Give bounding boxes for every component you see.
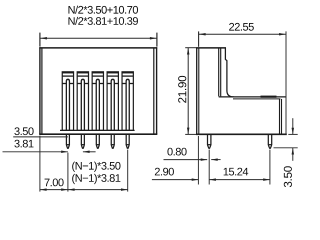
label 7.00 <box>45 179 64 187</box>
front view inner wall lines <box>42 49 154 134</box>
label 22.55 <box>229 23 254 31</box>
pin P4 front view <box>111 134 115 148</box>
terminal slot 4 <box>107 72 118 131</box>
side view left wall inner <box>198 48 200 133</box>
pin P1 front view <box>66 134 70 148</box>
extension line rear pin center <box>208 150 210 185</box>
side view floor line lower <box>233 98 280 100</box>
label (N-1)*3.81 <box>72 174 120 184</box>
label 3.81 pitch <box>14 140 33 148</box>
terminal slot 2 <box>77 72 88 131</box>
front view housing outline <box>39 47 157 134</box>
side view front wall outer line <box>281 99 283 134</box>
extension line pin1 center <box>67 153 69 192</box>
dim 0.80 leader with arrows <box>164 159 208 161</box>
rear pin side view <box>207 134 211 148</box>
dim 15.24 dimension line <box>209 179 270 181</box>
terminal slot 5 <box>122 72 133 131</box>
terminal slot 3 <box>92 72 103 131</box>
side view cavity wall line B <box>220 48 222 96</box>
dim 3.50 pin length extension bottom <box>274 147 298 149</box>
dim N/2 dimension line <box>40 37 156 39</box>
label N/2*3.81+10.39 <box>68 17 137 25</box>
side view floor line upper <box>219 96 286 98</box>
dim 2.90 dimension line <box>152 179 199 181</box>
dim (N-1) dimension line <box>68 189 128 191</box>
side view rear block right edge with step and fillet <box>225 48 233 97</box>
dim N/2 extension tick right <box>156 33 158 47</box>
extension line side wall bottom <box>197 136 199 185</box>
front view base line <box>60 129 135 131</box>
label 21.90 rotated <box>178 76 186 103</box>
dim 21.90 extension tick bottom <box>185 133 196 135</box>
label N/2*3.50+10.70 <box>68 6 138 14</box>
pin P2 front view <box>81 134 85 148</box>
dim 22.55 dimension line <box>199 33 286 35</box>
dim 21.90 dimension line <box>187 48 189 134</box>
pin P3 front view <box>96 134 100 148</box>
dim 7.00 dimension line <box>40 189 68 191</box>
dim N/2 extension tick left <box>39 33 41 47</box>
side view bottom edge <box>196 133 287 135</box>
dim 3.50 pin length dimension line with arrows <box>292 118 294 134</box>
leader line for 3.50 <box>13 136 68 138</box>
dim 21.90 extension tick top <box>185 47 196 49</box>
side view right outer edge / 22.55 extension line <box>285 31 287 134</box>
front pin side view <box>268 134 272 148</box>
extension line front pin center <box>269 150 271 185</box>
label 2.90 <box>155 168 174 176</box>
side view front wall inner line <box>279 99 281 134</box>
side view cavity wall line A <box>218 48 220 96</box>
side view floor contact rail segment <box>261 96 277 98</box>
dim 3.50 pin length extension top <box>288 133 297 135</box>
label (N-1)*3.50 <box>72 162 120 172</box>
side view top edge <box>196 47 226 49</box>
dim 22.55 extension tick left <box>198 31 200 46</box>
terminal slot 1 <box>62 72 73 131</box>
side view left wall outer <box>196 47 198 134</box>
label 0.80 <box>167 148 186 156</box>
label 3.50 pin length rotated <box>284 166 292 187</box>
extension line housing left edge <box>39 136 41 192</box>
leader line for 3.81 with arrows <box>3 151 68 153</box>
label 15.24 <box>224 168 249 176</box>
label 3.50 pitch <box>14 127 33 135</box>
pin P5 front view <box>126 134 130 148</box>
extension line pin5 center <box>127 150 129 192</box>
